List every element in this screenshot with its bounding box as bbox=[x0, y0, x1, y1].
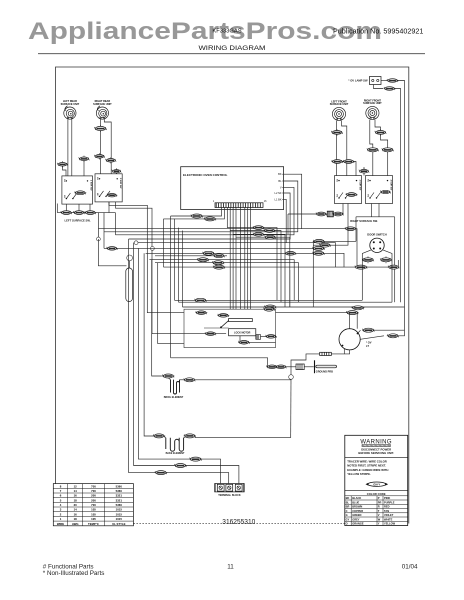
wire bus row 11 bbox=[164, 266, 399, 268]
svg-text:LEFT SURFACE SW.: LEFT SURFACE SW. bbox=[65, 218, 91, 222]
wire oven light bottom lead bbox=[291, 350, 350, 375]
junction node on bus 2 bbox=[151, 247, 155, 251]
svg-text:5360: 5360 bbox=[116, 503, 123, 507]
connector on left-front lead bbox=[331, 129, 342, 136]
wire bus row 8 bbox=[149, 260, 294, 301]
wire trunk to lock row 1 bbox=[147, 253, 184, 312]
wire bus row 7 bbox=[146, 253, 344, 267]
svg-text:GREEN: GREEN bbox=[352, 513, 361, 517]
svg-text:18: 18 bbox=[74, 498, 78, 502]
wire left-front second lead bbox=[342, 121, 347, 176]
door switch bbox=[370, 238, 384, 252]
svg-text:1 SUR SW: 1 SUR SW bbox=[90, 180, 92, 192]
connector on lock top edge bbox=[263, 307, 275, 311]
connector strip row 1 bbox=[190, 214, 203, 218]
wire row d drop bbox=[356, 313, 358, 329]
svg-text:TAN: TAN bbox=[384, 509, 389, 513]
wire S4 bottom drops bbox=[371, 204, 373, 217]
infinite switch S4 right-front bbox=[366, 176, 393, 204]
svg-text:16: 16 bbox=[74, 494, 78, 498]
wire chain drop left 1 bbox=[97, 213, 99, 229]
svg-text:WIRING DIAGRAM: WIRING DIAGRAM bbox=[199, 45, 266, 52]
svg-text:RIGHT SURFACE SW.: RIGHT SURFACE SW. bbox=[350, 219, 378, 223]
wire mid row c bbox=[183, 306, 405, 308]
connector on ov lamp lower wire bbox=[384, 87, 396, 91]
connector on right-front second lead bbox=[375, 129, 386, 136]
wire S2 bottom jog right 2 bbox=[116, 202, 153, 260]
svg-text:14: 14 bbox=[74, 508, 78, 512]
connector door right lead bbox=[380, 256, 392, 263]
wire row11 right drop bbox=[397, 260, 399, 267]
door lock assembly outline bbox=[184, 309, 276, 347]
svg-text:O: O bbox=[346, 522, 348, 526]
lock lever bbox=[221, 321, 229, 328]
burner right-front surface unit bbox=[366, 106, 379, 119]
probe connector block bbox=[296, 364, 304, 370]
connector broil right bbox=[183, 378, 195, 382]
wire left-rear burner leads bbox=[67, 119, 69, 176]
inline splice on light bottom wire bbox=[320, 352, 332, 355]
svg-text:BLACK: BLACK bbox=[352, 496, 361, 500]
wire broil right bbox=[180, 379, 185, 381]
wire left long drop to capsule bbox=[98, 239, 126, 266]
connector bake right bbox=[184, 434, 196, 438]
wire probe feed stub bbox=[285, 366, 296, 368]
wire gauge table bbox=[53, 484, 133, 526]
wire right-rear burner leads bbox=[100, 119, 102, 174]
wire stub connector to switch bbox=[63, 166, 67, 176]
wire strip pin drop 10 bbox=[250, 208, 252, 310]
wire row1 right extension bbox=[302, 229, 357, 267]
svg-text:SURFACE UNIT: SURFACE UNIT bbox=[363, 102, 382, 105]
connector above cam bar bbox=[217, 314, 229, 318]
svg-text:V: V bbox=[378, 513, 380, 517]
connector inside S4 bbox=[380, 190, 391, 193]
junction node below probe bbox=[289, 375, 294, 380]
probe shaft bbox=[316, 365, 337, 368]
wire right switch feed row b bbox=[313, 204, 348, 246]
svg-text:L1 BK: L1 BK bbox=[275, 197, 282, 201]
svg-text:V: V bbox=[280, 185, 282, 189]
wire lock motor feed bbox=[184, 333, 226, 335]
wire strip pin drop 2 bbox=[164, 208, 225, 219]
connector mid row d bbox=[346, 311, 359, 315]
wire bus row 9 bbox=[155, 263, 299, 303]
wire chain drop left 3 bbox=[114, 213, 116, 235]
connector on row 6 left bbox=[106, 247, 118, 251]
svg-text:01/04: 01/04 bbox=[402, 563, 418, 570]
svg-text:20: 20 bbox=[74, 503, 78, 507]
svg-text:ELECTRONIC OVEN CONTROL: ELECTRONIC OVEN CONTROL bbox=[183, 173, 228, 177]
connector row1 right bbox=[345, 227, 357, 231]
wire broil right run bbox=[194, 379, 290, 381]
wire lock motor right bbox=[261, 335, 276, 337]
svg-text:BROIL ELEMENT: BROIL ELEMENT bbox=[164, 396, 184, 399]
wire light upper to right trunk bbox=[374, 329, 405, 331]
connector chain left 2 bbox=[73, 211, 85, 215]
wire probe stub bbox=[304, 366, 314, 368]
svg-text:WHITE: WHITE bbox=[384, 517, 393, 521]
infinite switch S3 left-front bbox=[335, 176, 362, 204]
wire right feed drop bbox=[312, 241, 314, 307]
color code divider bbox=[345, 489, 408, 491]
wire light bottom right branch bbox=[343, 349, 345, 354]
junction node left 1 bbox=[97, 237, 101, 241]
wire trunk to broil element bbox=[152, 260, 161, 376]
svg-text:COLOR CODE: COLOR CODE bbox=[367, 492, 386, 496]
connector strip row 5 bbox=[253, 232, 265, 236]
svg-text:18: 18 bbox=[74, 517, 78, 521]
svg-text:12: 12 bbox=[74, 484, 78, 488]
wire right chain lower row bbox=[356, 216, 395, 218]
connector pair on cross segment bbox=[331, 160, 343, 164]
svg-text:* Non-Illustrated Parts: * Non-Illustrated Parts bbox=[43, 570, 105, 577]
svg-text:LT: LT bbox=[366, 344, 369, 348]
connector on row 9 bbox=[212, 261, 225, 265]
wire stub to switch gap bbox=[363, 167, 365, 176]
svg-text:11: 11 bbox=[227, 563, 234, 570]
infinite switch S1 left-rear bbox=[62, 176, 93, 204]
electronic oven control box bbox=[181, 167, 284, 210]
connector mid row a bbox=[194, 298, 207, 302]
wire ov-lamp right vertical bbox=[398, 81, 405, 331]
broil element bbox=[171, 380, 180, 394]
wire strip pin drop 3 bbox=[227, 208, 277, 301]
connector mid row c 1 bbox=[264, 305, 277, 309]
svg-text:14: 14 bbox=[74, 489, 78, 493]
wire mid vertical 1 bbox=[289, 270, 291, 307]
connector probe feed 2 bbox=[275, 365, 287, 369]
connector on row 10 bbox=[213, 254, 225, 258]
burner right-rear surface unit bbox=[96, 106, 108, 119]
connector bottom feed 1 bbox=[155, 471, 168, 475]
svg-text:PR: PR bbox=[378, 500, 382, 504]
wire EOC terminal BK routing bbox=[98, 174, 301, 229]
wire EOC terminal L2 NF routing bbox=[129, 193, 291, 239]
connector strip row 6 bbox=[264, 235, 276, 239]
svg-text:3321: 3321 bbox=[116, 494, 123, 498]
top rule bbox=[38, 53, 425, 55]
oven lamp switch box bbox=[370, 77, 382, 85]
svg-text:ORANGE: ORANGE bbox=[352, 522, 364, 526]
connector mid row c 2 bbox=[352, 306, 365, 310]
connector on row 11 left bbox=[354, 265, 367, 269]
svg-text:1015: 1015 bbox=[116, 508, 123, 512]
svg-text:TEMP°C: TEMP°C bbox=[88, 522, 99, 526]
connector right feed a bbox=[313, 239, 325, 243]
connector strip row 2 bbox=[204, 217, 217, 221]
infinite switch S2 right-rear bbox=[95, 174, 122, 202]
connector chain left 1 bbox=[60, 211, 72, 215]
wire capsule stub bbox=[129, 261, 131, 268]
svg-text:YELLOW STRIPE.: YELLOW STRIPE. bbox=[347, 472, 371, 476]
connector above S2 right bbox=[112, 168, 121, 174]
connector inside S2 bbox=[107, 194, 118, 197]
svg-text:5360: 5360 bbox=[116, 489, 123, 493]
svg-text:VIOLET: VIOLET bbox=[384, 513, 394, 517]
wire chain below right switches bbox=[288, 204, 343, 215]
svg-text:BL: BL bbox=[278, 179, 282, 183]
connector on right-rear lower lead bbox=[94, 153, 105, 159]
svg-text:SURFACE UNIT: SURFACE UNIT bbox=[61, 103, 80, 106]
burner left-front surface unit bbox=[332, 107, 345, 120]
wire probe feed row bbox=[171, 358, 276, 367]
svg-text:L2 NF: L2 NF bbox=[275, 191, 282, 195]
wire oven light right lead bbox=[360, 336, 384, 340]
wire mid row b bbox=[179, 301, 393, 303]
connector lock motor feed bbox=[205, 332, 217, 336]
wire left-front burner leads bbox=[335, 121, 337, 176]
svg-text:YELLOW: YELLOW bbox=[384, 522, 396, 526]
connector above left switch bbox=[79, 156, 90, 162]
connector chain right 2 bbox=[332, 212, 344, 216]
wire broil left bbox=[161, 375, 164, 377]
wire bus row 6 bbox=[104, 247, 313, 249]
svg-text:PURPLE: PURPLE bbox=[384, 500, 395, 504]
svg-text:BL: BL bbox=[346, 500, 350, 504]
connector bridging S1-S2 bbox=[74, 191, 86, 195]
connector on second lead bbox=[106, 157, 117, 163]
wire EOC terminal L1 BK routing bbox=[134, 199, 287, 242]
wire mid row a left riser bbox=[174, 219, 176, 300]
connector strip row 4 bbox=[264, 229, 276, 233]
harness capsule bbox=[126, 268, 133, 302]
connector on row 11 mid bbox=[213, 265, 226, 269]
lock cam bar bbox=[229, 319, 253, 322]
wire trunk to terminal right bbox=[134, 243, 175, 466]
wire trunk s2 drop bbox=[163, 219, 165, 267]
connector on row 7 bbox=[202, 251, 215, 255]
bake element bbox=[166, 438, 184, 451]
wire strip pin drop 1 bbox=[171, 208, 222, 217]
connector on row 8 bbox=[197, 258, 210, 262]
wire right trunk third bbox=[394, 217, 396, 302]
wire trunk to terminal left bbox=[138, 248, 190, 459]
svg-text:DOOR SWITCH: DOOR SWITCH bbox=[367, 233, 386, 237]
svg-text:SURFACE UNIT: SURFACE UNIT bbox=[93, 103, 112, 106]
wire strip pin drop 6 bbox=[235, 208, 237, 310]
svg-text:AWG: AWG bbox=[72, 522, 79, 526]
svg-text:WIRE: WIRE bbox=[57, 522, 64, 526]
svg-text:200: 200 bbox=[91, 494, 96, 498]
svg-text:GROUND PRB: GROUND PRB bbox=[316, 371, 333, 374]
wire S2 bottom jog right 1 bbox=[109, 202, 147, 253]
svg-text:105: 105 bbox=[91, 512, 96, 516]
wire chain drop left 1 extension bbox=[97, 229, 99, 239]
connector door left lead bbox=[362, 256, 374, 263]
warning box bbox=[345, 435, 408, 525]
connector lower right-front bbox=[382, 146, 394, 153]
svg-text:105: 105 bbox=[91, 517, 96, 521]
svg-text:BK: BK bbox=[278, 172, 282, 176]
svg-text:2 SUR SW: 2 SUR SW bbox=[119, 178, 121, 190]
connector chain right 1 bbox=[316, 212, 328, 216]
wire right-rear burner second lead bbox=[104, 119, 111, 174]
connector on left-rear lead bbox=[57, 161, 68, 167]
wire ov-lamp to right edge bbox=[381, 80, 387, 82]
color code table bbox=[345, 492, 408, 526]
wire connector above switch stub bbox=[83, 161, 85, 176]
wire mid row d right part bbox=[276, 312, 358, 314]
svg-text:SURFACE UNIT: SURFACE UNIT bbox=[330, 103, 349, 106]
wire light right to edge bbox=[398, 330, 405, 336]
svg-text:5360: 5360 bbox=[116, 484, 123, 488]
wire bake left bbox=[153, 435, 155, 437]
svg-text:105: 105 bbox=[91, 508, 96, 512]
wire lock motor bottom bbox=[240, 336, 243, 342]
svg-text:1015: 1015 bbox=[116, 512, 123, 516]
connector chain left 3 bbox=[84, 211, 96, 215]
wire chain drop left 2 bbox=[103, 213, 105, 249]
connector on row 7 right bbox=[312, 251, 325, 255]
svg-text:316255310: 316255310 bbox=[222, 517, 255, 526]
connector lock motor bottom bbox=[238, 341, 250, 345]
svg-text:GY: GY bbox=[346, 517, 350, 521]
wire right-front burner leads bbox=[370, 120, 373, 176]
svg-text:PINK: PINK bbox=[384, 496, 390, 500]
wire bake right run bbox=[195, 437, 291, 439]
lock motor box bbox=[229, 329, 261, 340]
svg-text:Y: Y bbox=[378, 522, 380, 526]
fuse block on right chain bbox=[327, 211, 333, 217]
wire door switch right lead bbox=[383, 250, 392, 302]
wire trunk to lock row 2 bbox=[152, 260, 184, 334]
wire strip pin drop 4 bbox=[229, 208, 231, 310]
wire mid row c left riser bbox=[182, 231, 184, 308]
svg-text:AppliancePartsPros.com: AppliancePartsPros.com bbox=[28, 17, 382, 44]
wire EOC terminal BL routing bbox=[104, 181, 298, 232]
wire right-front second lead bbox=[375, 120, 388, 176]
wire strip pin drop 5 bbox=[232, 208, 234, 310]
svg-text:700: 700 bbox=[91, 503, 96, 507]
svg-text:3321: 3321 bbox=[116, 498, 123, 502]
connector oven light upper bbox=[362, 328, 375, 332]
wire trunk to probe row bbox=[170, 216, 172, 358]
wire bus row 10 short bbox=[155, 255, 227, 257]
connector right feed b bbox=[319, 243, 331, 247]
svg-text:UL STYLE: UL STYLE bbox=[112, 522, 126, 526]
connector oven light right bbox=[387, 334, 399, 338]
connector on row 11 right bbox=[388, 265, 400, 269]
connector broil left bbox=[162, 374, 174, 378]
svg-text:KF333GAS: KF333GAS bbox=[212, 28, 241, 34]
wire trunk to bake element bbox=[144, 253, 153, 436]
svg-text:* OV LAMP SW: * OV LAMP SW bbox=[348, 78, 368, 82]
wire lock bottom row bbox=[249, 341, 276, 343]
svg-text:R: R bbox=[378, 505, 380, 509]
connector lock right bbox=[265, 335, 277, 339]
connector on right-rear burner lead bbox=[94, 125, 106, 132]
svg-text:16: 16 bbox=[74, 512, 78, 516]
svg-text:1015: 1015 bbox=[116, 517, 123, 521]
wire strip pin drop 9 bbox=[247, 208, 249, 310]
tracer wire example oval bbox=[366, 482, 389, 486]
svg-text:LOCK MOTOR: LOCK MOTOR bbox=[234, 332, 251, 335]
terminal block bbox=[215, 484, 245, 492]
connector on ov lamp wire bbox=[387, 79, 399, 83]
diagram border bbox=[56, 67, 409, 524]
wire strip pin drop 7 bbox=[239, 208, 241, 310]
svg-text:700: 700 bbox=[91, 484, 96, 488]
svg-text:P: P bbox=[378, 496, 380, 500]
svg-text:COPPER: COPPER bbox=[352, 509, 363, 513]
svg-text:BLUE: BLUE bbox=[352, 500, 359, 504]
wire ov-lamp lower branch bbox=[374, 85, 384, 89]
wire door switch left lead bbox=[362, 250, 371, 300]
connector bottom feed 2 bbox=[174, 464, 187, 468]
svg-text:BR: BR bbox=[346, 505, 350, 509]
wire chain below left switches bbox=[57, 212, 115, 214]
svg-text:BK: BK bbox=[346, 496, 350, 500]
connector bake left bbox=[153, 434, 165, 438]
connector on row 7 far right bbox=[285, 251, 297, 255]
connector bridging S3-S4 bbox=[346, 193, 358, 197]
svg-text:200: 200 bbox=[91, 498, 96, 502]
svg-text:RED: RED bbox=[384, 505, 390, 509]
svg-text:BAKE ELEMENT: BAKE ELEMENT bbox=[166, 452, 185, 455]
junction node on bus bbox=[134, 241, 138, 245]
connector on right-front lead bbox=[367, 146, 379, 153]
wire mid row b left riser bbox=[178, 228, 180, 303]
svg-text:C: C bbox=[346, 509, 348, 513]
connector probe feed 1 bbox=[266, 365, 278, 369]
connector lock interior left bbox=[195, 311, 207, 315]
wire strip pin drop 8 bbox=[244, 208, 246, 310]
wire stub above S2 right bbox=[116, 173, 118, 174]
wire row5 right extension bbox=[286, 243, 335, 267]
connector bottom feed 3 bbox=[189, 457, 202, 461]
svg-text:G: G bbox=[346, 513, 348, 517]
wire ov-lamp lower to right vertical bbox=[395, 89, 401, 303]
wire oven light upper lead bbox=[358, 330, 361, 333]
wire trunk to lock bottom bbox=[158, 263, 184, 344]
wire bake right bbox=[184, 437, 186, 439]
svg-text:Publication No. 5995402921: Publication No. 5995402921 bbox=[333, 26, 423, 35]
oven light bbox=[339, 329, 360, 350]
connector above switch gap bbox=[359, 168, 369, 174]
wire trunk to terminal mid bbox=[129, 239, 155, 473]
EOC connector strip P1 bbox=[215, 203, 263, 208]
junction node capsule top bbox=[127, 255, 133, 261]
burner left-rear surface unit bbox=[64, 106, 76, 119]
svg-text:4 SUR SW: 4 SUR SW bbox=[390, 180, 393, 192]
wire EOC terminal V routing bbox=[115, 187, 294, 234]
svg-text:3 SUR SW: 3 SUR SW bbox=[359, 180, 361, 192]
svg-text:BEFORE SERVICING UNIT.: BEFORE SERVICING UNIT. bbox=[358, 451, 394, 455]
svg-text:GN-Y: GN-Y bbox=[373, 482, 380, 486]
warning divider bbox=[345, 457, 408, 459]
wire cross segment right burners bbox=[332, 162, 356, 176]
wire mid row a bbox=[175, 299, 363, 301]
wire junction drop bbox=[290, 379, 292, 437]
svg-text:700: 700 bbox=[91, 489, 96, 493]
svg-text:BROWN: BROWN bbox=[352, 505, 362, 509]
connector strip row 3 bbox=[253, 226, 265, 230]
wire oven light top lead bbox=[349, 313, 351, 329]
connector on row 6 bbox=[312, 246, 325, 250]
probe mounting bar bbox=[314, 360, 316, 373]
wire right switch feed row a bbox=[313, 240, 356, 242]
svg-text:TERMINAL BLOCK: TERMINAL BLOCK bbox=[218, 494, 241, 497]
svg-text:GREY: GREY bbox=[352, 517, 360, 521]
